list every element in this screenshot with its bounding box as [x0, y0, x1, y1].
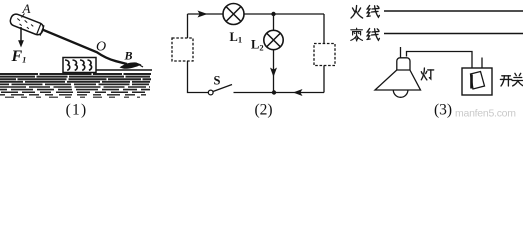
svg-text:O: O — [96, 39, 106, 54]
svg-text:(3): (3) — [434, 101, 452, 118]
svg-text:manfen5.com: manfen5.com — [455, 108, 516, 119]
svg-text:(1): (1) — [66, 101, 88, 118]
svg-text:S: S — [214, 74, 221, 88]
svg-text:(2): (2) — [254, 101, 272, 118]
svg-text:B: B — [124, 49, 133, 63]
svg-text:A: A — [22, 1, 31, 16]
